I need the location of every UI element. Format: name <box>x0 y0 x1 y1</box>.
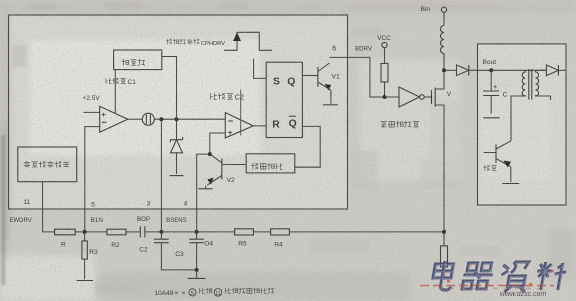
label fanxiang qudongqi (inverting driver) <box>381 121 419 128</box>
wire S input from pulse <box>254 59 267 79</box>
node drain/diode <box>442 68 446 72</box>
wire resistor to BDRV line <box>384 82 386 97</box>
wire source down to rail <box>435 105 444 232</box>
label caption jiao he <box>199 288 211 294</box>
watermark specks <box>433 264 554 285</box>
transistor (line output, hangguan) <box>495 145 497 164</box>
discharge control box <box>246 154 295 173</box>
ground (C4) <box>196 270 198 278</box>
resistor R <box>55 229 76 235</box>
label bijiaoqi C1 <box>106 78 126 84</box>
caption circled 5 <box>189 289 196 296</box>
resistor R2 <box>107 229 126 235</box>
node BOP rail <box>159 230 163 234</box>
label caption jiao tongguo dianzu xianglian <box>225 288 273 294</box>
E/W pincushion correction box <box>18 147 77 182</box>
wire C2 strobe <box>240 90 242 136</box>
diode D2 <box>536 69 546 71</box>
node Bout <box>489 68 493 72</box>
wire Qbar to discharge control <box>295 126 320 167</box>
comparator C2 <box>225 113 253 138</box>
output stage box <box>478 44 567 205</box>
wire primary bottom to driver transistor <box>511 96 525 141</box>
wire to diode D1 <box>444 69 457 71</box>
node BSENS rail <box>195 230 199 234</box>
wire pin3 BOP drop <box>160 119 162 232</box>
wire BSENS to R5 <box>197 231 235 233</box>
resistor R5 <box>235 229 254 235</box>
wire V2 node to pin4 BSENS <box>197 154 210 232</box>
transistor V2 <box>221 159 223 180</box>
transformer T primary <box>522 70 525 96</box>
wire inverter to gate <box>424 96 431 98</box>
resistor R6 (sense) <box>443 232 445 246</box>
wire BDRV pin6 out <box>330 57 400 97</box>
capacitor C4 <box>196 232 198 239</box>
wire soft-start right to zener node <box>162 57 177 120</box>
ground (V1) <box>323 104 338 106</box>
current source symbol <box>142 113 154 125</box>
label zuoyou jiaoxing jiaozheng (EW correction) <box>24 161 69 167</box>
wire D1 to Bout <box>469 69 546 71</box>
wire R5 to R4 <box>253 231 270 233</box>
label xing jili jiji (HDRV pulse) <box>166 39 199 45</box>
node V2 collector junction <box>208 152 212 156</box>
HDRV pulse waveform <box>224 32 272 50</box>
VCC terminal <box>382 42 387 47</box>
bottom rail left: EW corr to rail <box>43 182 55 232</box>
wire current source to comparator C2 <box>154 118 225 120</box>
wire soft-start to C1 strobe <box>114 70 116 114</box>
resistor R4 <box>271 229 290 235</box>
wire C2 to BOP node <box>145 231 162 233</box>
wire C2 + input from V2 node <box>210 133 226 154</box>
node BDRV/inverter <box>383 95 387 99</box>
wire C2 out to R input <box>253 125 266 127</box>
C1 minus <box>228 120 233 122</box>
inductor L <box>441 26 445 54</box>
node BOP junction <box>159 117 163 121</box>
transformer T secondary <box>536 70 539 96</box>
MOSFET V <box>432 88 436 108</box>
comparator C1 <box>100 106 128 132</box>
SR flip-flop U1 <box>266 62 302 137</box>
ground (zener) <box>170 175 184 177</box>
ground (V2) <box>199 188 213 190</box>
wire secondary bottom stub <box>536 96 551 100</box>
caption circled 11 <box>214 289 222 297</box>
transformer core <box>529 69 532 100</box>
wire Q output to V1 <box>302 75 318 77</box>
wire BOP to BSENS node <box>161 231 196 233</box>
IC outline box TDA48xx <box>9 15 348 209</box>
node zener junction <box>175 117 179 121</box>
node sense rail <box>442 230 446 234</box>
wire VCC to resistor <box>384 48 386 64</box>
wire drain up <box>435 70 444 89</box>
ground (C) <box>483 117 500 119</box>
wire +2.5V stub <box>83 111 99 113</box>
inverting driver U2 <box>399 87 420 107</box>
wire C1 out to current source <box>128 118 143 120</box>
label bijiaoqi C2 <box>211 93 233 99</box>
diode D1 <box>457 65 469 76</box>
node pin5/R3 <box>83 230 87 234</box>
watermark red underline <box>420 285 554 287</box>
wire R4 to sense node <box>289 231 444 233</box>
label hangguan (line transistor) <box>484 165 497 171</box>
capacitor C2 (series) <box>140 226 145 237</box>
pulse arrow <box>233 33 241 42</box>
capacitor C3 <box>160 232 162 239</box>
zener diode <box>176 119 178 174</box>
wire C1 inverting feedback to pin5 BIN <box>85 127 100 232</box>
Bin terminal <box>441 7 446 12</box>
wire Bin to inductor <box>443 12 445 25</box>
wire inductor to drain node <box>443 54 445 71</box>
wire R2 to C2 <box>126 231 140 233</box>
wire discharge-control to V2 base <box>222 164 246 166</box>
label ruan qidong (soft start) <box>122 59 145 66</box>
watermark dianqi ziliao <box>431 261 568 292</box>
capacitor C plus wire <box>490 70 492 113</box>
wire R to R2 <box>75 231 107 233</box>
transistor V1 <box>317 67 319 87</box>
node C3/C4 bottom <box>195 268 199 272</box>
ground (R3) <box>77 280 93 282</box>
soft-start box <box>114 50 162 70</box>
label fangdian kongzhi (discharge control) <box>251 163 282 169</box>
resistor (VCC pull-up) <box>381 64 388 83</box>
ground (line transistor) <box>502 183 519 185</box>
resistor R3 <box>84 232 86 241</box>
